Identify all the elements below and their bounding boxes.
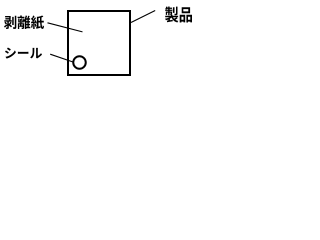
background	[0, 0, 197, 86]
leader line to 剥離紙	[48, 23, 83, 32]
leader line to 製品	[131, 11, 155, 23]
label シール (seal)	[5, 48, 42, 59]
leader line to シール	[50, 54, 73, 62]
box (product sheet with release paper)	[68, 11, 130, 75]
label 剥離紙 (release paper)	[4, 16, 44, 30]
label 製品 (product)	[165, 7, 192, 23]
circle (seal)	[73, 56, 86, 69]
